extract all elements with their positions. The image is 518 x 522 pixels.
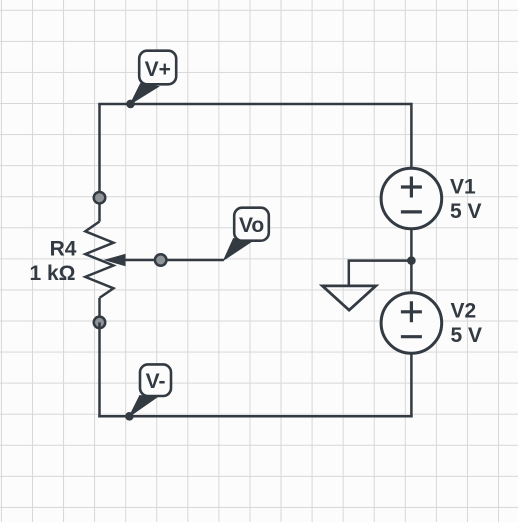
wire: right vertical (top rail to V1 plus terminal) xyxy=(410,103,413,168)
svg-text:V+: V+ xyxy=(145,58,171,81)
pot wiper arrow xyxy=(104,254,126,266)
pot lead bottom xyxy=(98,298,101,323)
wire: ground branch xyxy=(349,261,412,286)
wire: wiper to Vo flag xyxy=(124,259,224,262)
svg-text:5 V: 5 V xyxy=(450,200,482,223)
wire: V2 minus to bottom rail xyxy=(410,353,413,417)
pot lead top xyxy=(98,198,101,222)
wire: left vertical (pot bottom terminal to bottom rail) xyxy=(98,322,101,417)
V2 minus sign xyxy=(401,335,422,338)
net flag Vo xyxy=(224,208,269,260)
voltage source V2 xyxy=(381,293,442,354)
terminal: pot top xyxy=(94,192,106,204)
svg-text:V-: V- xyxy=(146,370,166,393)
V1 minus sign xyxy=(401,210,422,213)
junction: V+ flag tap on top wire xyxy=(126,100,135,109)
svg-text:Vo: Vo xyxy=(239,214,264,237)
terminal: pot wiper xyxy=(155,254,167,266)
junction: V- flag tap on bottom wire xyxy=(125,412,134,421)
ground xyxy=(322,286,375,310)
wire: left vertical (top rail corner to pot top terminal) xyxy=(98,104,101,198)
svg-text:V2: V2 xyxy=(451,300,477,323)
V2 plus sign xyxy=(401,301,422,322)
terminal: pot bottom xyxy=(94,317,106,329)
pot zigzag body xyxy=(85,222,113,298)
junction: ground tap xyxy=(407,256,416,265)
V1 plus sign xyxy=(401,177,422,198)
wire: top horizontal rail xyxy=(98,103,411,106)
svg-text:1 kΩ: 1 kΩ xyxy=(29,262,75,285)
net flag V- xyxy=(129,364,171,416)
voltage source V1 xyxy=(381,168,442,229)
svg-text:5 V: 5 V xyxy=(451,324,483,347)
net flag V+ xyxy=(131,51,177,104)
wire: V1 minus to V2 plus xyxy=(410,229,413,293)
svg-text:R4: R4 xyxy=(50,238,77,261)
svg-text:V1: V1 xyxy=(450,176,476,199)
potentiometer R4 xyxy=(85,198,113,323)
wire: bottom horizontal rail xyxy=(98,415,412,418)
